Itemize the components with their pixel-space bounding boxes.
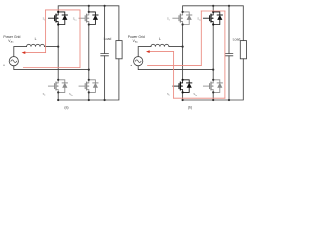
svg-text:Load: Load [233,38,241,42]
ac source Vac a [9,57,18,66]
wire top rail b [183,6,244,41]
wire bottom rail b [183,59,244,100]
svg-text:L: L [159,37,161,41]
svg-text:2a: 2a [195,95,198,97]
red segment top a [46,9,80,11]
speck near source a [3,65,4,66]
transistor S3a (b top-right, active) [203,11,222,26]
transistor S2 (a bottom-left, inactive) [48,79,67,94]
svg-text:1a: 1a [74,19,77,21]
wire source top lead a [14,47,27,57]
node dot bottom rail legA a [57,99,59,101]
svg-text:1: 1 [44,19,45,21]
svg-text:2a: 2a [71,95,74,97]
wire leg B mid b [212,25,214,80]
svg-text:Load: Load [104,37,112,41]
wire leg B bottom b [212,92,214,100]
svg-text:Power Grid: Power Grid [128,35,145,39]
inductor L a [27,44,59,46]
node dot top rail cap b [228,5,230,7]
red segment mid vertical b [200,11,202,65]
wire leg A bottom a [57,92,59,100]
svg-text:(a): (a) [64,105,68,109]
node dot inductor-legA a [57,46,59,48]
red segment left vertical a [45,10,47,53]
wire top rail a [58,6,119,41]
red segment return b [148,64,202,66]
inductor L b [151,44,183,46]
transistor S1a (a top-right, diode active) [79,11,98,26]
node dot top rail legB b [212,5,214,7]
wire source bottom lead b [138,66,213,70]
capacitor C b [225,54,233,56]
wire leg B top a [88,6,90,12]
transistor S3 (b top-left, inactive) [173,11,192,26]
transistor S4a (b bottom-right, inactive) [203,79,222,94]
transistor S4 (b bottom-left, active) [173,79,192,94]
wire leg B top b [212,6,214,12]
wire leg A mid a [57,25,59,80]
red arrowhead a [22,51,26,54]
svg-text:Power Grid: Power Grid [3,35,20,39]
ac source Vac b [134,57,143,66]
svg-text:1: 1 [169,19,170,21]
red segment top b [201,10,225,12]
red current path a [23,10,80,68]
wire cap branch a [104,6,106,100]
capacitor C a [101,54,109,56]
wire source top lead b [138,47,151,57]
node dot bottom rail cap a [104,99,106,101]
red segment bottom a [23,67,80,69]
wire leg B mid a [88,25,90,80]
svg-text:AC: AC [135,41,138,44]
red segment right vertical b [224,11,226,98]
speck near source b [131,65,132,66]
wire leg B bottom a [88,92,90,100]
load resistor b [240,41,246,59]
red segment arrow line b [149,51,173,53]
node dot bottom rail legB b [212,99,214,101]
node dot top rail legB a [88,5,90,7]
wire leg A bottom b [182,92,184,100]
red segment bottom b [174,97,225,99]
node dot bottom rail cap b [228,99,230,101]
svg-text:2: 2 [44,95,45,97]
red arrowhead b [146,50,150,53]
node dot bottom rail legB a [88,99,90,101]
load resistor a [116,41,122,59]
node dot return-legB b [212,69,214,71]
svg-text:2: 2 [169,95,170,97]
svg-text:AC: AC [11,41,14,44]
node dot return-legB a [88,69,90,71]
wire source bottom lead a [14,66,89,70]
wire cap branch b [228,6,230,100]
node dot top rail cap a [104,5,106,7]
wire bottom rail a [58,59,119,100]
transistor S1 (a top-left, active) [48,11,67,26]
red segment arrow line a [25,52,46,54]
transistor S2a (a bottom-right, inactive) [79,79,98,94]
red segment right vertical a [79,10,81,68]
red segment left vertical down b [173,52,175,99]
svg-text:L: L [35,37,37,41]
wire leg A mid b [182,25,184,80]
svg-text:(b): (b) [188,105,192,109]
red current path b [148,11,225,98]
node dot inductor-legA b [182,46,184,48]
node dot bottom rail legA b [182,99,184,101]
